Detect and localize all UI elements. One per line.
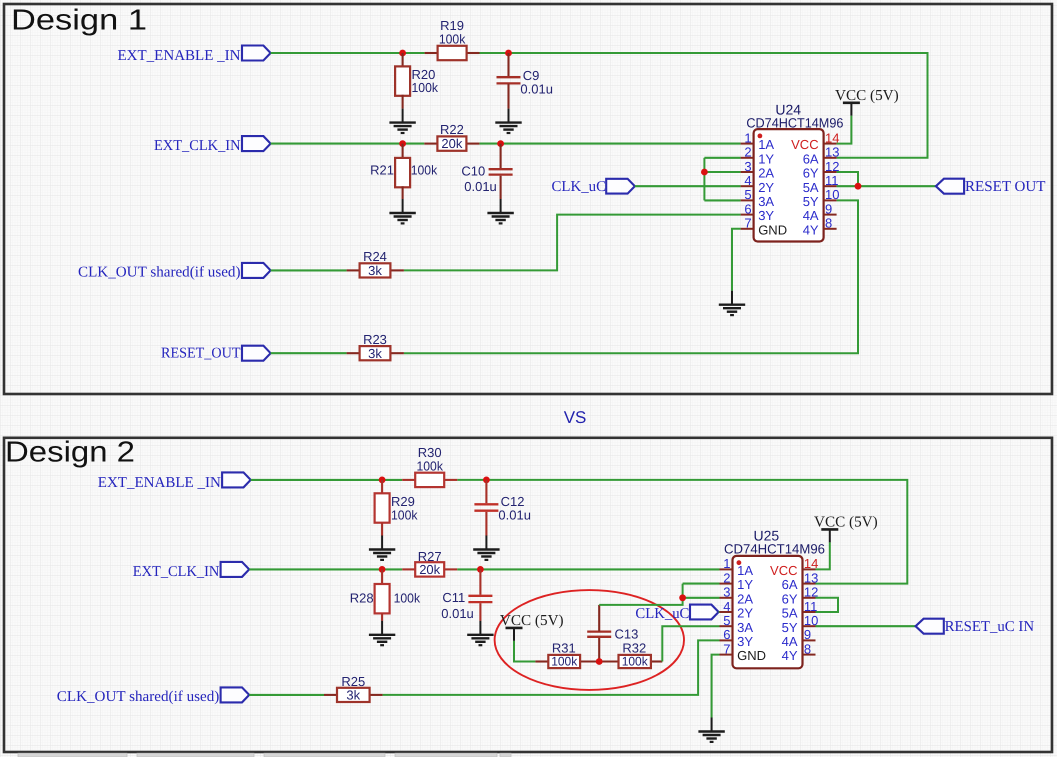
U25 pin 9 (4A) stub, number and name: [782, 627, 816, 649]
resistor R23 with value 3k inside: [360, 346, 391, 360]
resistor R19: [438, 46, 467, 60]
U24 pin 1 (1A) stub, number and name: [741, 130, 775, 152]
svg-text:VCC: VCC: [791, 137, 818, 152]
wire CLK_OUT port to R24: [271, 269, 347, 271]
wire to U24 pin 5: [704, 199, 740, 201]
svg-text:CLK_OUT shared(if used): CLK_OUT shared(if used): [57, 689, 220, 705]
svg-text:C13: C13: [615, 626, 639, 641]
svg-text:R31: R31: [552, 640, 576, 655]
capacitor C9: [497, 77, 521, 83]
port EXT_ENABLE _IN: [242, 46, 271, 61]
svg-text:20k: 20k: [441, 136, 462, 151]
svg-text:100k: 100k: [622, 655, 649, 669]
svg-text:GND: GND: [737, 648, 766, 663]
capacitor C12: [474, 504, 498, 510]
resistor R27 leads: [402, 568, 415, 570]
node junction on RESET net: [855, 183, 862, 190]
resistor R21: [395, 158, 410, 187]
ground under U24 pin 7: [719, 291, 745, 315]
wire CLK_uC net to U24 pin 4: [635, 185, 741, 187]
U25 pin 14 (VCC) stub, number and name: [770, 556, 818, 578]
svg-text:100k: 100k: [412, 80, 439, 95]
resistor R28: [375, 584, 390, 613]
svg-text:13: 13: [825, 145, 839, 160]
wire CLK_OUT2 port to R25: [249, 694, 324, 696]
svg-text:7: 7: [723, 641, 730, 656]
node junction at C12 tap: [483, 477, 490, 484]
svg-text:4: 4: [723, 599, 730, 614]
svg-text:6Y: 6Y: [803, 166, 819, 181]
svg-text:R22: R22: [440, 122, 464, 137]
svg-text:6: 6: [723, 627, 730, 642]
svg-text:EXT_CLK_IN: EXT_CLK_IN: [133, 564, 220, 580]
resistor R21 bottom lead: [402, 186, 404, 199]
U25 pin 12 (6Y) stub, number and name: [782, 585, 819, 607]
svg-text:0.01u: 0.01u: [464, 179, 497, 194]
ground under C9: [495, 109, 521, 133]
U24 pin 10 (5Y) stub, number and name: [803, 187, 840, 209]
IC U25 body: [733, 556, 803, 668]
svg-text:RESET_OUT: RESET_OUT: [161, 346, 241, 362]
capacitor C12 top lead: [485, 480, 487, 503]
svg-text:CLK_OUT shared(if used): CLK_OUT shared(if used): [78, 264, 241, 280]
resistor R30: [415, 473, 444, 487]
wire U25 pin 10 to RESET_uC IN port: [816, 625, 916, 627]
wire EXT_CLK net: port to R22: [271, 143, 425, 145]
resistor R32 leads: [599, 660, 618, 662]
svg-text:R23: R23: [363, 332, 387, 347]
U24 pin 2 (1Y) stub, number and name: [741, 145, 775, 167]
resistor R29 top lead: [381, 480, 383, 493]
svg-text:4A: 4A: [803, 208, 819, 223]
svg-text:5A: 5A: [803, 180, 819, 195]
resistor R19 leads: [425, 52, 438, 54]
svg-text:3A: 3A: [737, 620, 753, 635]
svg-text:R27: R27: [418, 549, 442, 564]
capacitor C11 bottom lead: [479, 603, 481, 621]
svg-text:1: 1: [744, 130, 751, 145]
svg-text:8: 8: [804, 641, 811, 656]
U24 pin 13 (6A) stub, number and name: [803, 145, 840, 167]
wire EXT_ENABLE2 net: port to R30: [251, 479, 403, 481]
svg-text:1Y: 1Y: [758, 151, 774, 166]
capacitor C10 bottom lead: [500, 176, 502, 199]
resistor R21 top lead: [402, 144, 404, 158]
U25 pin 13 (6A) stub, number and name: [782, 570, 819, 592]
resistor R32 with value 100k inside: [619, 655, 651, 668]
resistor R24 leads: [347, 269, 360, 271]
Design 2 panel frame: [4, 438, 1052, 752]
wire EXT_CLK net: R22 to pin1 of U24: [479, 143, 740, 145]
svg-text:0.01u: 0.01u: [498, 508, 531, 523]
resistor R25 with value 3k inside: [337, 688, 370, 702]
port CLK_uC (Design 2): [690, 605, 719, 620]
wire U24 pin 6 to CLK_OUT branch: [404, 215, 741, 271]
svg-text:EXT_ENABLE _IN: EXT_ENABLE _IN: [98, 475, 221, 491]
U24 pin 8 (4Y) stub, number and name: [803, 216, 837, 238]
svg-text:CLK_uC: CLK_uC: [552, 179, 607, 195]
U25 pin 2 (1Y) stub, number and name: [720, 570, 754, 592]
svg-text:3: 3: [723, 585, 730, 600]
wire EXT_ENABLE2 net: R30 to pin13 of U25: [457, 480, 907, 584]
svg-text:5A: 5A: [782, 606, 798, 621]
svg-text:3k: 3k: [368, 346, 382, 361]
port CLK_OUT shared (Design 2): [221, 687, 250, 702]
node junction at R20 tap: [399, 50, 406, 57]
resistor R29: [375, 493, 390, 522]
U24 pin 6 (3Y) stub, number and name: [741, 201, 775, 223]
svg-text:3k: 3k: [346, 688, 360, 703]
power VCC bar symbol: [843, 103, 860, 116]
svg-text:1A: 1A: [737, 563, 753, 578]
U25 pin 3 (2A) stub, number and name: [720, 585, 754, 607]
svg-text:5: 5: [744, 187, 751, 202]
capacitor C9 top lead: [507, 53, 509, 77]
wire CLK_uC to U25 pin 4: [718, 611, 721, 613]
wire EXT_CLK2 net: port to R27: [249, 568, 402, 570]
svg-text:3A: 3A: [758, 194, 774, 209]
wire C13 top to 1Y bus: [599, 584, 682, 605]
svg-text:7: 7: [744, 216, 751, 231]
svg-text:Design 1: Design 1: [11, 5, 147, 37]
svg-text:100k: 100k: [551, 655, 578, 669]
resistor R29 bottom lead: [381, 523, 383, 536]
node junction on 1Y bus at pin 3 row (Design 2): [679, 594, 686, 601]
svg-text:1A: 1A: [758, 137, 774, 152]
svg-text:4Y: 4Y: [782, 648, 798, 663]
ground under C10: [487, 199, 513, 223]
svg-text:6: 6: [744, 201, 751, 216]
svg-text:VCC (5V): VCC (5V): [814, 514, 878, 531]
svg-text:5Y: 5Y: [803, 194, 819, 209]
U25 pin 1 (1A) stub, number and name: [720, 556, 754, 578]
node junction at R29 tap: [379, 477, 386, 484]
wire EXT_ENABLE net: port to R19: [271, 52, 425, 54]
resistor R24 with value 3k inside: [360, 263, 391, 277]
svg-text:13: 13: [804, 570, 818, 585]
svg-text:R25: R25: [341, 674, 365, 689]
svg-text:20k: 20k: [419, 562, 440, 577]
svg-text:GND: GND: [758, 222, 787, 237]
IC U25 pin-1 marker dot: [737, 560, 742, 565]
svg-text:2A: 2A: [737, 591, 753, 606]
svg-text:100k: 100k: [416, 458, 443, 473]
ground under C11: [467, 621, 493, 645]
svg-text:6Y: 6Y: [782, 591, 798, 606]
U24 pin 9 (4A) stub, number and name: [803, 201, 837, 223]
svg-text:5: 5: [723, 613, 730, 628]
ground under C12: [473, 536, 499, 560]
U24 pin 14 (VCC) stub, number and name: [791, 130, 839, 152]
ground under R21: [389, 199, 415, 223]
resistor R27 with value 20k inside: [415, 562, 444, 576]
ground under R28: [369, 621, 395, 645]
wire U24 pin 12 down to RESET net: [837, 172, 858, 186]
red comparison ellipse highlight: [495, 590, 684, 690]
svg-text:RESET_uC IN: RESET_uC IN: [945, 619, 1035, 635]
svg-text:CLK_uC: CLK_uC: [635, 606, 689, 622]
node junction on 1Y bus at pin 3 row: [701, 169, 708, 176]
wire EXT_CLK2 net: R27 to pin1 of U25: [457, 568, 719, 570]
wire VCC to U24 pin 14: [837, 116, 852, 144]
port RESET_uC IN: [916, 619, 944, 634]
wire U24 pin 7 to ground: [732, 229, 741, 291]
capacitor C13: [587, 632, 611, 637]
svg-text:6A: 6A: [782, 577, 798, 592]
svg-text:CD74HCT14M96: CD74HCT14M96: [724, 541, 825, 556]
IC U24 pin-1 marker dot: [758, 134, 763, 139]
U25 pin 6 (3Y) stub, number and name: [720, 627, 754, 649]
svg-text:VCC: VCC: [770, 563, 797, 578]
svg-text:R28: R28: [350, 591, 374, 606]
svg-text:4A: 4A: [782, 634, 798, 649]
svg-text:6A: 6A: [803, 151, 819, 166]
svg-text:R21: R21: [370, 163, 394, 178]
wire U25 pin 7 to ground: [712, 655, 720, 718]
svg-text:11: 11: [825, 173, 839, 188]
U25 pin 10 (5Y) stub, number and name: [782, 613, 819, 635]
svg-text:VS: VS: [564, 408, 587, 427]
port EXT_CLK_IN (Design 2): [221, 562, 250, 577]
port EXT_ENABLE _IN (Design 2): [222, 472, 251, 487]
svg-text:3Y: 3Y: [758, 208, 774, 223]
wire U24 pin 10 to R23 output: [404, 200, 858, 353]
svg-text:100k: 100k: [391, 507, 418, 522]
U24 pin 4 (2Y) stub, number and name: [741, 173, 775, 195]
capacitor C13 top lead: [598, 605, 600, 632]
svg-text:3Y: 3Y: [737, 634, 753, 649]
svg-text:2Y: 2Y: [737, 606, 753, 621]
port EXT_CLK_IN: [242, 136, 271, 151]
svg-text:C11: C11: [442, 590, 465, 605]
U24 pin 11 (5A) stub, number and name: [803, 173, 839, 195]
wire jumper U25 pin 12 to pin 11: [816, 598, 839, 612]
U25 pin 4 (2Y) stub, number and name: [720, 599, 754, 621]
wire to U25 pin 2: [683, 583, 720, 585]
U25 pin 5 (3A) stub, number and name: [720, 613, 754, 635]
svg-text:RESET OUT: RESET OUT: [965, 179, 1046, 195]
bottom window-edge fragments: [18, 753, 511, 757]
wire R32 to U25 pin 5: [662, 626, 719, 661]
svg-text:EXT_CLK_IN: EXT_CLK_IN: [154, 138, 241, 154]
svg-text:100k: 100k: [394, 591, 421, 606]
resistor R20: [395, 66, 410, 95]
svg-text:5Y: 5Y: [782, 620, 798, 635]
node junction between R31 and R32: [596, 658, 603, 665]
power VCC bar symbol of Design 2 IC: [821, 529, 838, 542]
svg-text:0.01u: 0.01u: [520, 82, 553, 97]
svg-text:100k: 100k: [439, 31, 466, 46]
node junction at R21 tap: [399, 140, 406, 147]
svg-text:9: 9: [804, 627, 811, 642]
capacitor C9 bottom lead: [507, 84, 509, 109]
ground under R29: [369, 536, 395, 560]
U24 pin 5 (3A) stub, number and name: [741, 187, 775, 209]
wire U24 pin 11 to RESET OUT port: [837, 185, 936, 187]
svg-text:2: 2: [723, 570, 730, 585]
ground under U25 pin 7: [698, 718, 724, 742]
capacitor C10 top lead: [500, 144, 502, 170]
wire VCC to U25 pin 14: [816, 542, 830, 569]
port CLK_OUT shared: [242, 263, 271, 278]
svg-text:11: 11: [804, 599, 818, 614]
ground under R20: [389, 109, 415, 133]
svg-text:4Y: 4Y: [803, 222, 819, 237]
port RESET OUT: [936, 179, 964, 194]
power VCC bar symbol inside ellipse: [506, 628, 523, 641]
svg-text:2Y: 2Y: [758, 180, 774, 195]
resistor R25 leads: [324, 694, 337, 696]
U24 pin 3 (2A) stub, number and name: [741, 159, 775, 181]
wire EXT_ENABLE net: R19 to pin13 of U24: [480, 53, 928, 158]
resistor R31 with value 100k inside: [548, 655, 580, 668]
svg-text:R32: R32: [622, 640, 646, 655]
resistor R20 top lead: [402, 53, 404, 66]
wire VCC to R31 left lead: [514, 641, 535, 662]
resistor R20 bottom lead: [402, 95, 404, 109]
resistor R30 leads: [402, 479, 415, 481]
wire RESET_OUT port to R23: [271, 352, 347, 354]
svg-text:4: 4: [744, 173, 751, 188]
svg-text:3: 3: [744, 159, 751, 174]
svg-text:2A: 2A: [758, 166, 774, 181]
svg-text:100k: 100k: [411, 163, 438, 178]
Design 1 panel frame: [4, 4, 1052, 394]
resistor R28 top lead: [381, 569, 383, 584]
port RESET_OUT: [242, 346, 271, 361]
wire R25 to U25 pin 6: [383, 640, 720, 695]
wire to U24 pin 2: [704, 157, 740, 159]
wire to U25 pin 3: [683, 597, 720, 599]
svg-text:Design 2: Design 2: [5, 437, 135, 469]
node junction at C11 tap: [477, 566, 484, 573]
resistor R23 leads: [347, 352, 360, 354]
U24 pin 7 (GND) stub, number and name: [741, 216, 787, 238]
svg-text:8: 8: [825, 216, 832, 231]
svg-text:0.01u: 0.01u: [441, 606, 474, 621]
U25 pin 8 (4Y) stub, number and name: [782, 641, 816, 663]
U25 pin 11 (5A) stub, number and name: [782, 599, 818, 621]
IC U24 body: [754, 129, 824, 241]
resistor R22 leads: [424, 143, 437, 145]
svg-text:2: 2: [744, 145, 751, 160]
node junction at R28 tap: [379, 566, 386, 573]
capacitor C11 top lead: [479, 569, 481, 594]
svg-text:EXT_ENABLE _IN: EXT_ENABLE _IN: [118, 48, 241, 64]
U25 pin 7 (GND) stub, number and name: [720, 641, 766, 663]
svg-text:9: 9: [825, 201, 832, 216]
capacitor C11: [468, 596, 492, 602]
U24 pin 12 (6Y) stub, number and name: [803, 159, 840, 181]
svg-text:C10: C10: [461, 164, 485, 179]
wire to U24 pin 3: [704, 171, 740, 173]
capacitor C13 bottom lead to junction: [598, 638, 600, 662]
svg-text:R24: R24: [363, 249, 387, 264]
node junction at C9 tap: [505, 50, 512, 57]
capacitor C12 bottom lead: [485, 512, 487, 536]
svg-text:3k: 3k: [368, 263, 382, 278]
svg-text:1: 1: [723, 556, 730, 571]
capacitor C10: [489, 169, 513, 174]
resistor R22 with value 20k inside: [437, 136, 466, 150]
port CLK_uC: [606, 179, 635, 194]
svg-text:1Y: 1Y: [737, 577, 753, 592]
resistor R28 bottom lead: [381, 613, 383, 621]
wire net 1Y/2A/3A vertical bus: [703, 158, 705, 201]
node junction at C10 tap: [497, 140, 504, 147]
resistor R31 leads: [535, 660, 548, 662]
